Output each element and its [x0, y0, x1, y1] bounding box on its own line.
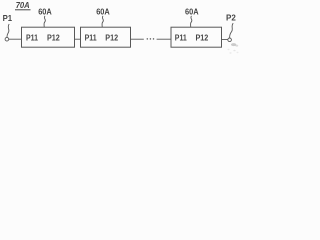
svg-text:60A: 60A — [96, 8, 110, 17]
leader wire from P2 to terminal — [230, 23, 234, 38]
svg-text:60A: 60A — [38, 8, 52, 17]
svg-text:P11: P11 — [175, 33, 187, 42]
svg-text:70A: 70A — [16, 0, 30, 10]
svg-text:P12: P12 — [196, 33, 209, 42]
svg-text:P11: P11 — [26, 33, 38, 42]
block 60A #3 (box) — [171, 27, 222, 47]
block 60A #1 (box) — [22, 27, 75, 47]
wire break to block3 — [157, 38, 171, 40]
wire terminal P1 to block 1 — [9, 38, 22, 40]
svg-text:P11: P11 — [85, 33, 97, 42]
svg-text:60A: 60A — [185, 8, 199, 17]
svg-text:P12: P12 — [105, 33, 118, 42]
svg-text:P12: P12 — [47, 33, 60, 42]
leader line 60A #2 — [102, 16, 103, 27]
terminal P2 (circle) — [228, 38, 232, 42]
ellipsis dots (continuation) — [147, 38, 149, 40]
leader line 60A #3 — [191, 16, 192, 27]
wire block1 to block2 — [75, 38, 81, 40]
wire block2 to break — [131, 38, 144, 40]
svg-text:P1: P1 — [3, 14, 13, 23]
scan smudge (faint, bottom right) — [228, 43, 239, 54]
wire block3 to terminal P2 — [222, 39, 228, 41]
leader line 60A #1 — [44, 16, 45, 27]
svg-text:P2: P2 — [226, 14, 236, 23]
label 70A (figure reference, underlined) — [15, 0, 31, 10]
terminal P1 (circle) — [5, 37, 9, 41]
leader wire from P1 to terminal — [7, 24, 9, 37]
block 60A #2 (box) — [81, 27, 131, 47]
